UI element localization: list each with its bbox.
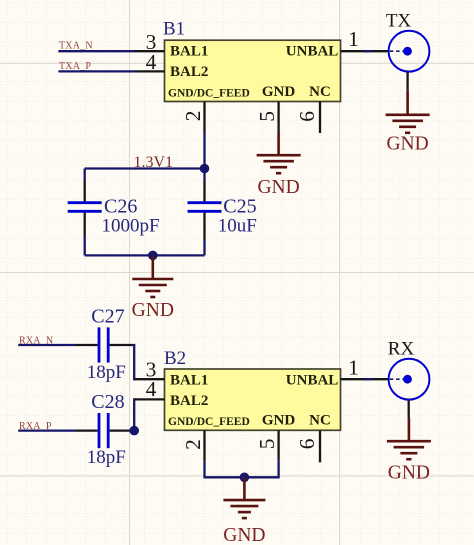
svg-text:1000pF: 1000pF [102,216,160,237]
pin 6 [319,102,321,134]
svg-text:4: 4 [146,50,157,74]
wire pin2 down to junction [203,133,205,169]
svg-text:10uF: 10uF [218,216,257,237]
svg-text:BAL1: BAL1 [170,373,208,389]
ground below pin 5 [257,134,301,198]
wire C25 bottom lead [203,240,205,256]
wire RXA_N to C27 [18,344,76,346]
wire TXA_N to pin 3 [58,50,134,52]
pin 1 of B2 [341,378,372,380]
svg-text:C26: C26 [104,196,137,218]
pin 3 [135,50,165,52]
wire bottom rail [85,254,205,256]
wire pin1 to RX [365,378,372,380]
pin 6 of B2 [319,430,321,462]
wire C26 bottom lead [84,236,86,255]
svg-text:UNBAL: UNBAL [286,44,339,60]
svg-text:5: 5 [255,438,279,449]
svg-text:C25: C25 [223,196,256,218]
svg-text:6: 6 [295,111,319,122]
capacitor C26 [68,180,102,236]
svg-text:NC: NC [309,413,331,429]
pin 3 of B2 [135,378,165,380]
svg-text:UNBAL: UNBAL [286,373,339,389]
wire RXA_P to C28 [18,429,76,431]
svg-text:2: 2 [181,111,205,122]
connector TX [389,31,430,72]
wire top rail 1.3V1 [85,167,205,169]
svg-text:6: 6 [295,438,319,449]
svg-text:BAL1: BAL1 [170,44,208,60]
svg-text:GND: GND [386,134,428,155]
capacitor C25 [188,180,222,240]
svg-text:GND/DC_FEED: GND/DC_FEED [168,87,250,99]
pin 4 of B2 [135,398,165,400]
svg-text:18pF: 18pF [87,362,126,383]
wire pin2 of B2 down [205,460,279,477]
ground below B2 [223,477,265,545]
svg-text:18pF: 18pF [87,447,126,468]
svg-text:TXA_P: TXA_P [59,61,91,72]
svg-text:BAL2: BAL2 [170,393,208,409]
balun B1 [165,40,341,101]
svg-text:GND: GND [262,413,296,429]
wire C27 to pin 3 [110,344,132,346]
svg-text:2: 2 [181,439,205,450]
capacitor C28 [99,413,108,448]
pin 1 [341,50,372,52]
junction node RXA_P [129,426,139,436]
svg-text:1: 1 [348,356,359,380]
svg-text:GND: GND [132,300,174,321]
ground below cap rail [132,255,174,320]
wire C25 top lead [203,169,205,181]
wire pin1 to TX [365,50,372,52]
svg-text:4: 4 [146,377,157,401]
pin 5 of B2 [277,430,279,460]
pin 4 [135,70,165,72]
svg-text:1: 1 [348,27,359,51]
svg-text:5: 5 [255,111,279,122]
wire C26 top lead [84,169,86,181]
svg-text:GND/DC_FEED: GND/DC_FEED [168,416,250,428]
svg-text:GND: GND [388,462,430,483]
junction node B2 gnd [240,473,250,483]
wire C28 to pin 4 [110,429,132,431]
svg-text:RX: RX [388,339,415,360]
svg-text:TXA_N: TXA_N [59,41,93,52]
svg-text:GND: GND [257,177,299,198]
pin 5 [277,102,279,135]
svg-text:C28: C28 [91,391,124,413]
svg-text:NC: NC [309,84,331,100]
connector TX ground pin [406,71,408,90]
svg-text:B2: B2 [164,348,186,369]
pin 2 [203,102,205,133]
wire TXA_P to pin 4 [58,70,134,72]
svg-text:B1: B1 [163,19,185,40]
svg-text:TX: TX [386,10,412,31]
connector RX [389,359,430,400]
svg-text:GND: GND [223,525,265,545]
junction node 1.3V1 [200,164,210,174]
ground below RX [387,418,431,483]
pin 2 of B2 [203,430,205,461]
ground below TX [386,90,430,154]
capacitor C27 [99,327,108,362]
svg-text:C27: C27 [91,306,124,328]
balun B2 [165,369,341,430]
junction node gnd rail [148,251,158,261]
connector RX ground pin [408,399,410,418]
svg-text:BAL2: BAL2 [170,64,208,80]
svg-text:GND: GND [262,84,296,100]
